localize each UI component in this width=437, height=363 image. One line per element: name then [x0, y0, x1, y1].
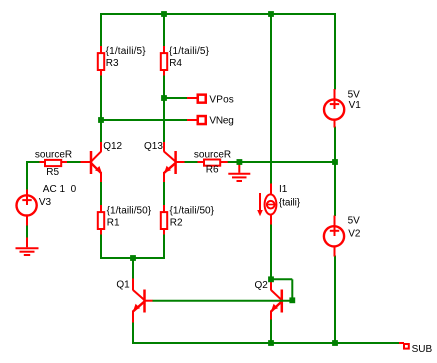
svg-text:Q1: Q1 — [116, 279, 130, 290]
svg-text:R1: R1 — [107, 218, 120, 229]
svg-text:{taili}: {taili} — [279, 198, 301, 209]
svg-text:R3: R3 — [106, 58, 119, 69]
svg-text:R4: R4 — [169, 58, 182, 69]
svg-text:AC 1 0: AC 1 0 — [43, 184, 77, 195]
svg-text:R5: R5 — [46, 167, 59, 178]
svg-text:VPos: VPos — [209, 94, 233, 105]
svg-text:R2: R2 — [170, 218, 183, 229]
svg-text:SUB: SUB — [412, 344, 433, 355]
svg-text:{1/taili/50}: {1/taili/50} — [107, 206, 152, 217]
svg-text:V3: V3 — [39, 197, 52, 208]
svg-text:5V: 5V — [348, 89, 361, 100]
svg-text:{1/taili/5}: {1/taili/5} — [106, 46, 147, 57]
svg-text:{1/taili/5}: {1/taili/5} — [169, 46, 210, 57]
svg-text:Q13: Q13 — [144, 141, 163, 152]
svg-text:Q2: Q2 — [255, 280, 269, 291]
svg-text:V1: V1 — [349, 100, 362, 111]
svg-text:{1/taili/50}: {1/taili/50} — [170, 206, 215, 217]
svg-text:Q12: Q12 — [103, 141, 122, 152]
svg-text:V2: V2 — [348, 229, 361, 240]
svg-text:I1: I1 — [279, 184, 288, 195]
svg-text:sourceR: sourceR — [35, 149, 72, 160]
svg-text:VNeg: VNeg — [209, 116, 233, 127]
svg-text:sourceR: sourceR — [194, 149, 231, 160]
svg-text:5V: 5V — [348, 216, 361, 227]
svg-text:R6: R6 — [206, 164, 219, 175]
